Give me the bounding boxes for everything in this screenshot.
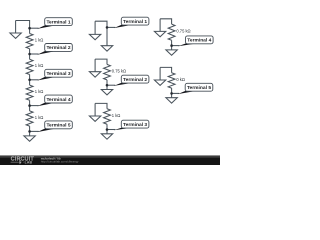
svg-text:Terminal 3: Terminal 3 — [46, 71, 70, 77]
svg-text:Terminal 1: Terminal 1 — [46, 19, 70, 25]
svg-text:Terminal 3: Terminal 3 — [123, 122, 147, 128]
svg-text:1 kΩ: 1 kΩ — [35, 37, 44, 42]
svg-text:1 kΩ: 1 kΩ — [35, 63, 44, 68]
svg-text:Terminal 2: Terminal 2 — [46, 45, 70, 51]
svg-text:Terminal 1: Terminal 1 — [123, 19, 147, 25]
svg-text:0.75 kΩ: 0.75 kΩ — [112, 69, 126, 74]
svg-text:1 kΩ: 1 kΩ — [112, 113, 121, 118]
svg-text:Terminal 4: Terminal 4 — [187, 38, 211, 44]
svg-text:1 kΩ: 1 kΩ — [35, 89, 44, 94]
svg-text:0.75 kΩ: 0.75 kΩ — [176, 29, 190, 34]
svg-text:http://circuitlab.com/c6wzrqy: http://circuitlab.com/c6wzrqy — [41, 159, 79, 163]
svg-text:Terminal 5: Terminal 5 — [187, 85, 211, 91]
svg-text:0 kΩ: 0 kΩ — [176, 77, 185, 82]
svg-text:Terminal 5: Terminal 5 — [46, 123, 70, 129]
svg-text:Terminal 2: Terminal 2 — [123, 77, 147, 83]
svg-text:1 kΩ: 1 kΩ — [35, 115, 44, 120]
svg-text:Terminal 4: Terminal 4 — [46, 97, 70, 103]
svg-text:LAB: LAB — [25, 161, 33, 165]
